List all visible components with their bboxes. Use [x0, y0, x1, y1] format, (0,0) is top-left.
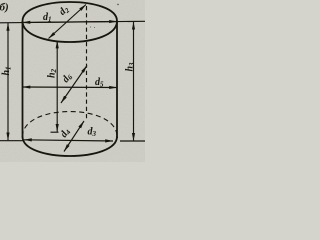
cylinder dimensioning figure б)	[0, 0, 145, 162]
scan speck	[117, 4, 118, 5]
dimension d6 diagonal	[61, 66, 87, 104]
svg-text:б): б)	[0, 2, 9, 14]
scan speck	[94, 27, 95, 28]
h3 bottom extension line	[120, 140, 145, 142]
paper background	[0, 0, 145, 162]
bottom ellipse dashed upper arc	[23, 112, 118, 137]
dimension h1 line	[7, 23, 9, 140]
h2 bottom tick	[51, 131, 59, 133]
right side wire	[116, 22, 118, 139]
top ellipse	[23, 2, 118, 42]
dimension d4 diagonal	[64, 121, 84, 152]
dimension d1 line	[0, 21, 145, 23]
dimension d3 line	[24, 140, 113, 141]
dimension h3 line	[133, 22, 135, 141]
bottom ellipse solid lower arc	[23, 137, 118, 157]
dimension d2 diagonal	[49, 5, 87, 39]
left side wire	[22, 21, 24, 138]
dashed axis extension line	[86, 6, 88, 121]
h1 bottom extension line	[0, 140, 23, 142]
dimension h2 line	[56, 41, 58, 132]
dimension d5 line	[23, 86, 118, 89]
scan speck	[90, 26, 91, 27]
